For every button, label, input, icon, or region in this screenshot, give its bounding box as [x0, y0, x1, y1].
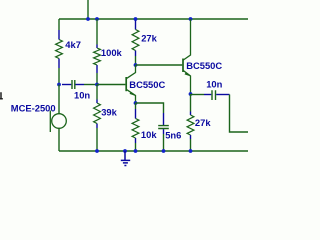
wire R5 to ground rail	[135, 143, 137, 151]
wire top supply rail	[59, 18, 248, 20]
transistor Q2 emitter lead	[183, 71, 190, 95]
capacitor C1 10n plates	[72, 80, 75, 89]
ground symbol	[121, 151, 130, 166]
wire mic bottom to ground rail	[58, 128, 60, 151]
resistor R4 27k pins	[135, 21, 137, 57]
wire R6 to ground rail	[190, 139, 192, 151]
transistor Q1 BC550C base bar	[125, 77, 127, 91]
resistor R5 10k body	[132, 119, 139, 139]
resistor R3 39k pins	[96, 100, 98, 129]
wire output to right edge	[230, 95, 249, 133]
capacitor C1 10n right pin	[76, 84, 85, 86]
resistor R4 27k body	[132, 30, 139, 51]
resistor R6 27k body	[187, 115, 194, 135]
node Q2 emitter node	[189, 92, 193, 96]
wire emitter node to R5	[135, 103, 137, 109]
node R2 top junction	[95, 17, 99, 21]
svg-text:MCE-2500: MCE-2500	[11, 102, 56, 113]
microphone membrane bar	[49, 111, 51, 133]
svg-text:39k: 39k	[101, 106, 117, 117]
wire base node to R3	[96, 85, 98, 100]
wire left column top (rail to R1)	[58, 19, 60, 30]
capacitor C1 10n left pin	[62, 84, 71, 86]
resistor R2 100k pins	[96, 45, 98, 74]
capacitor C3 10n right pin	[216, 94, 229, 96]
svg-text:5n6: 5n6	[165, 129, 181, 140]
node Q1 emitter node	[134, 101, 138, 105]
node Q2 collector rail junction	[189, 17, 193, 21]
resistor R6 27k pins	[190, 112, 192, 140]
svg-text:4k7: 4k7	[65, 39, 81, 50]
node R6 bottom junction	[189, 149, 193, 153]
wire R2 to base node	[96, 73, 98, 85]
wire rail to R2	[96, 19, 98, 45]
resistor R1 4k7 pins	[58, 30, 60, 68]
node R5 bottom junction	[134, 149, 138, 153]
svg-text:BC550C: BC550C	[186, 60, 222, 71]
svg-text:10k: 10k	[141, 129, 157, 140]
wire collector node to Q2 base	[136, 64, 183, 66]
transistor Q1 emitter lead	[127, 90, 136, 104]
capacitor C2 5n6 bottom pin	[163, 129, 165, 134]
wire R4 to collector node	[135, 56, 137, 65]
transistor Q2 BC550C base bar	[182, 59, 184, 73]
wire base node to Q1 base	[97, 84, 125, 86]
wire emitter node to R6	[190, 94, 192, 112]
text fragment at left edge	[0, 93, 3, 99]
capacitor C3 10n plates	[212, 90, 216, 100]
node supply stub junction	[86, 17, 90, 21]
resistor R2 100k body	[94, 48, 101, 65]
capacitor C3 10n left pin	[204, 94, 211, 96]
wire emitter node to C2 branch	[136, 103, 164, 113]
wire C2 to ground rail	[163, 134, 165, 151]
wire supply stub from top edge	[87, 0, 89, 19]
wire R3 to ground rail	[96, 128, 98, 151]
node mic junction	[57, 83, 61, 87]
svg-text:10n: 10n	[206, 79, 222, 90]
microphone MIC1 MCE-2500 circle	[52, 114, 67, 129]
node Q1 base node	[95, 83, 99, 87]
svg-text:100k: 100k	[101, 47, 123, 58]
resistor R1 4k7 body	[56, 40, 63, 59]
wire mic node to microphone	[58, 85, 60, 114]
svg-text:BC550C: BC550C	[129, 79, 165, 90]
transistor Q2 emitter arrow	[185, 72, 191, 76]
resistor R5 10k pins	[135, 109, 137, 143]
node C2 bottom junction	[162, 149, 166, 153]
capacitor C2 5n6 top pin	[163, 113, 165, 125]
svg-text:10n: 10n	[74, 90, 90, 101]
node ground symbol junction	[123, 149, 127, 153]
wire left column mid (R1 to mic node)	[58, 68, 60, 85]
transistor Q1 collector lead	[127, 65, 136, 79]
node R4 top junction	[134, 17, 138, 21]
wire C1 to base node	[84, 84, 97, 86]
node R3 bottom junction	[95, 149, 99, 153]
wire bottom ground rail	[59, 150, 248, 152]
svg-text:27k: 27k	[141, 32, 157, 43]
capacitor C2 5n6 plates	[158, 126, 169, 129]
resistor R3 39k body	[94, 103, 101, 124]
wire emitter node to C3	[191, 94, 205, 96]
node Q1 collector node	[134, 63, 138, 67]
transistor Q1 emitter arrow	[130, 92, 136, 96]
svg-text:27k: 27k	[195, 117, 211, 128]
transistor Q2 collector lead	[183, 19, 190, 60]
